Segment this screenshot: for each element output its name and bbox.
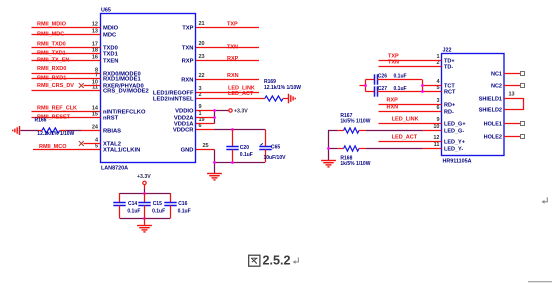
wire C65 bottom lead bbox=[265, 149, 267, 162]
power +3.3V symbol lower bbox=[143, 181, 146, 184]
svg-text:RMII_RXD1: RMII_RXD1 bbox=[37, 76, 66, 82]
power +3.3V symbol bbox=[229, 109, 232, 112]
svg-text:TXP: TXP bbox=[227, 21, 238, 27]
IC U65 LAN8720A body bbox=[101, 14, 196, 163]
svg-text:3: 3 bbox=[436, 98, 439, 104]
svg-text:RMII_TX_EN: RMII_TX_EN bbox=[37, 58, 69, 64]
svg-text:RBIAS: RBIAS bbox=[103, 129, 121, 135]
wire net RXN to J22 bbox=[379, 111, 442, 113]
svg-text:23: 23 bbox=[199, 54, 205, 60]
svg-text:TXN: TXN bbox=[388, 60, 399, 66]
wire VDD bus vertical bbox=[214, 111, 216, 124]
svg-text:22: 22 bbox=[199, 73, 205, 79]
wire net RMII_RXD1 to pin 7 bbox=[32, 78, 101, 80]
page edge line bottom right bbox=[528, 281, 552, 282]
svg-text:NC2: NC2 bbox=[491, 84, 502, 90]
capacitor C14 bbox=[113, 203, 125, 206]
open pad at NC1 bbox=[521, 72, 525, 76]
wire stem to rail bbox=[144, 189, 146, 194]
wire net RMII_RESET to pin 15 bbox=[32, 117, 101, 119]
svg-text:18: 18 bbox=[92, 47, 98, 53]
wire net RMII_TXD0 to pin 17 bbox=[32, 47, 101, 49]
wire R166 left lead bbox=[38, 130, 42, 132]
C65 polarity mark bbox=[260, 143, 262, 145]
svg-text:C27: C27 bbox=[378, 86, 387, 92]
wire decoupling bottom rail bbox=[215, 162, 266, 164]
svg-text:HR911105A: HR911105A bbox=[443, 159, 472, 165]
open pad at HOLE1 bbox=[521, 122, 525, 126]
wire pin 9 VDDIO stub bbox=[196, 110, 215, 112]
wire R167 right lead bbox=[359, 130, 366, 132]
svg-text:HOLE2: HOLE2 bbox=[484, 135, 502, 141]
wire net TXP to J22 bbox=[379, 60, 442, 62]
wire net RXP from U65 bbox=[196, 60, 259, 62]
svg-text:+3.3V: +3.3V bbox=[234, 109, 248, 115]
svg-text:C16: C16 bbox=[178, 201, 187, 207]
wire net RMII_REF_CLK to pin 14 bbox=[32, 111, 101, 113]
svg-text:LED_Y+: LED_Y+ bbox=[444, 140, 465, 146]
svg-text:13: 13 bbox=[509, 92, 515, 98]
wire pin 6 VDDCR stub bbox=[196, 129, 214, 131]
svg-text:RXP: RXP bbox=[182, 59, 194, 65]
svg-text:RMII_RXD0: RMII_RXD0 bbox=[37, 66, 66, 72]
wire C16 top lead bbox=[170, 193, 172, 202]
wire center-tap stub bbox=[360, 85, 366, 87]
svg-text:2.5.2: 2.5.2 bbox=[263, 254, 291, 268]
junction top rail bbox=[143, 192, 146, 195]
capacitor C26 bbox=[375, 74, 378, 84]
svg-text:0.1uF: 0.1uF bbox=[178, 209, 191, 215]
junction at VDDIO tee bbox=[213, 109, 216, 112]
caption return mark bbox=[293, 257, 299, 264]
wire cap cluster top rail bbox=[120, 193, 170, 195]
svg-text:HOLE1: HOLE1 bbox=[484, 122, 502, 128]
svg-text:+3.3V: +3.3V bbox=[137, 174, 151, 180]
svg-text:RXN: RXN bbox=[387, 105, 399, 111]
svg-text:TXD1: TXD1 bbox=[103, 52, 119, 58]
junction on center-tap bbox=[364, 84, 367, 87]
ground below R167/R168 bbox=[321, 161, 336, 167]
svg-text:15: 15 bbox=[92, 111, 98, 117]
wire pin 24 RBIAS stub bbox=[81, 130, 101, 132]
svg-text:RMII_MDIO: RMII_MDIO bbox=[37, 22, 67, 28]
ground below cap cluster bbox=[137, 226, 152, 232]
svg-text:SHIELD1: SHIELD1 bbox=[479, 97, 502, 103]
no-connect X on pin 10 bbox=[79, 83, 84, 88]
svg-text:VDDIO: VDDIO bbox=[175, 109, 194, 115]
svg-text:6: 6 bbox=[436, 105, 439, 111]
wire C15 top lead bbox=[144, 193, 146, 202]
wire net RMII_MDIO to pin 12 bbox=[32, 27, 101, 29]
junction at C20 bottom bbox=[231, 161, 234, 164]
svg-text:RCT: RCT bbox=[444, 90, 456, 96]
wire bus to +3.3V bbox=[215, 110, 229, 112]
wire to C26 bbox=[366, 79, 375, 81]
svg-text:RXN: RXN bbox=[227, 73, 239, 79]
svg-text:1k/5% 1/10W: 1k/5% 1/10W bbox=[340, 119, 370, 125]
wire net LED_LINK from pin 3 bbox=[196, 92, 259, 94]
wire to C27 bbox=[366, 91, 375, 93]
svg-text:LED_G-: LED_G- bbox=[444, 129, 464, 135]
capacitor C16 bbox=[164, 203, 176, 206]
svg-text:SHIELD2: SHIELD2 bbox=[479, 108, 502, 114]
wire NC2 to open pad bbox=[504, 85, 521, 87]
svg-text:16: 16 bbox=[92, 54, 98, 60]
junction GND rail bbox=[213, 161, 216, 164]
wire C20 bottom lead bbox=[232, 149, 234, 162]
svg-text:7: 7 bbox=[95, 72, 98, 78]
svg-text:TXEN: TXEN bbox=[103, 59, 118, 65]
wire R168 to pin stub bbox=[366, 148, 423, 150]
wire net RMII_TX_EN to pin 16 bbox=[32, 60, 101, 62]
wire NC1 to open pad bbox=[504, 73, 521, 75]
svg-text:GND: GND bbox=[181, 148, 194, 154]
svg-text:R166: R166 bbox=[35, 117, 47, 123]
resistor R166 body bbox=[42, 128, 60, 133]
svg-text:0.1uF: 0.1uF bbox=[152, 209, 165, 215]
svg-text:C20: C20 bbox=[240, 145, 249, 151]
ground at RBIAS bbox=[13, 126, 20, 135]
svg-text:LED_G+: LED_G+ bbox=[444, 122, 466, 128]
stray return mark right side bbox=[542, 197, 548, 204]
svg-text:RMII_REF_CLK: RMII_REF_CLK bbox=[37, 106, 77, 112]
wire caps left vertical bbox=[365, 80, 367, 92]
no-connect X on pin 4 bbox=[79, 141, 84, 146]
svg-text:RD+: RD+ bbox=[444, 103, 455, 109]
wire pin 4 XTAL2 stub bbox=[84, 143, 101, 145]
open pad at NC2 bbox=[521, 84, 525, 88]
svg-text:TXP: TXP bbox=[182, 26, 193, 32]
svg-text:NC1: NC1 bbox=[491, 72, 502, 78]
svg-text:C15: C15 bbox=[153, 201, 162, 207]
wire pin 10 stub bbox=[84, 85, 101, 87]
wire net RMII_RXD0 to pin 8 bbox=[32, 73, 101, 75]
svg-text:9: 9 bbox=[436, 117, 439, 123]
wire net TXP from U65 bbox=[196, 27, 259, 29]
svg-text:RXN: RXN bbox=[181, 78, 193, 84]
wire vertical to R168 bbox=[328, 148, 338, 150]
wire R168 right lead bbox=[359, 148, 366, 150]
svg-text:C14: C14 bbox=[128, 201, 137, 207]
wire C14 top lead bbox=[119, 193, 121, 202]
svg-text:LED_LINK: LED_LINK bbox=[392, 117, 419, 123]
wire C14 bottom lead bbox=[119, 205, 121, 218]
svg-text:1k/5% 1/10W: 1k/5% 1/10W bbox=[340, 161, 370, 167]
svg-text:TXN: TXN bbox=[182, 46, 194, 52]
svg-text:J22: J22 bbox=[443, 48, 452, 54]
wire R169 to ground bbox=[283, 98, 288, 100]
wire pin 19 VDD1A stub bbox=[196, 123, 215, 125]
svg-text:VDDCR: VDDCR bbox=[173, 128, 194, 134]
svg-text:RD-: RD- bbox=[444, 110, 454, 116]
wire net TXN from U65 bbox=[196, 47, 259, 49]
wire rail to ground bbox=[144, 219, 146, 226]
wire R167/R168 common vertical bbox=[328, 131, 330, 161]
junction at C20 top bbox=[231, 128, 234, 131]
wire net LED_ACT to pin 12 bbox=[379, 141, 442, 143]
wire TCT/RCT tie vertical bbox=[422, 80, 424, 92]
open pad at HOLE2 bbox=[521, 135, 525, 139]
svg-text:12.1k/1% 1/10W: 12.1k/1% 1/10W bbox=[37, 131, 74, 137]
connector J22 HR911105A body bbox=[442, 54, 505, 156]
wire C15 bottom lead bbox=[144, 205, 146, 218]
wire net RXN from U65 bbox=[196, 79, 259, 81]
ground at R169 bbox=[289, 94, 296, 104]
capacitor C15 bbox=[138, 203, 150, 206]
svg-text:21: 21 bbox=[199, 21, 205, 27]
svg-text:C65: C65 bbox=[271, 144, 280, 150]
caption character TU (figure) bbox=[249, 255, 260, 266]
svg-text:12: 12 bbox=[433, 135, 439, 141]
wire HOLE2 to open pad bbox=[504, 136, 521, 138]
svg-text:0.1uF: 0.1uF bbox=[394, 86, 407, 92]
wire net TXN to J22 bbox=[379, 66, 442, 68]
capacitor C20 bbox=[226, 147, 238, 150]
svg-text:U65: U65 bbox=[101, 8, 111, 14]
wire net RMII_TXD1 to pin 18 bbox=[32, 53, 101, 55]
svg-text:20: 20 bbox=[199, 41, 205, 47]
svg-text:LED2/nINTSEL: LED2/nINTSEL bbox=[153, 97, 194, 103]
junction bottom rail bbox=[143, 217, 146, 220]
svg-text:RXP: RXP bbox=[227, 56, 239, 62]
svg-text:25: 25 bbox=[203, 143, 209, 149]
wire net RMII_MDC to pin 13 bbox=[32, 34, 101, 36]
wire pin 11 stub bbox=[423, 148, 442, 150]
svg-text:RMII_MDC: RMII_MDC bbox=[37, 32, 64, 38]
svg-text:RMII_MCO: RMII_MCO bbox=[39, 144, 67, 150]
svg-text:C26: C26 bbox=[378, 74, 387, 80]
wire +3.3V stem bbox=[144, 185, 146, 189]
wire C20 top lead bbox=[232, 130, 234, 147]
wire ground to R166 bbox=[20, 130, 38, 132]
wire cap cluster bottom rail bbox=[120, 218, 170, 220]
wire pin 25 GND stub bbox=[196, 149, 215, 151]
svg-text:MDC: MDC bbox=[103, 33, 117, 39]
wire R166 right lead bbox=[60, 130, 66, 132]
wire net RMII_CRS_DV to pin 11 bbox=[32, 90, 101, 92]
capacitor C27 bbox=[375, 86, 378, 96]
svg-text:10uF/10V: 10uF/10V bbox=[264, 155, 287, 161]
svg-text:10: 10 bbox=[433, 124, 439, 130]
svg-text:RMII_TXD0: RMII_TXD0 bbox=[37, 42, 66, 48]
ground at U65 GND bbox=[207, 174, 222, 180]
svg-text:RXP: RXP bbox=[387, 98, 399, 104]
svg-text:LAN8720A: LAN8720A bbox=[101, 166, 128, 172]
wire pin 10 stub bbox=[423, 130, 442, 132]
junction at VDD2A tee bbox=[213, 116, 216, 119]
svg-text:11: 11 bbox=[434, 142, 440, 148]
wire net RXP to J22 bbox=[379, 104, 442, 106]
svg-text:LED_ACT: LED_ACT bbox=[228, 91, 254, 97]
wire net RMII_MCO to pin 5 bbox=[33, 149, 101, 151]
svg-text:5: 5 bbox=[95, 143, 98, 149]
wire to pin 4 TCT bbox=[422, 85, 442, 87]
svg-text:0.1uF: 0.1uF bbox=[127, 209, 140, 215]
svg-text:13: 13 bbox=[92, 28, 98, 34]
wire vertical to R167 bbox=[328, 130, 338, 132]
junction at RCT bbox=[421, 90, 424, 93]
svg-text:9: 9 bbox=[199, 104, 202, 110]
wire R167 to pin stub bbox=[366, 130, 423, 132]
svg-text:12: 12 bbox=[92, 21, 98, 27]
wire R168 left lead bbox=[338, 148, 344, 150]
resistor R169 body bbox=[265, 96, 283, 101]
junction at TCT bbox=[421, 84, 424, 87]
svg-text:LED_Y-: LED_Y- bbox=[444, 147, 463, 153]
svg-text:0.1uF: 0.1uF bbox=[394, 74, 407, 80]
wire pin 1 VDD2A stub bbox=[196, 117, 215, 119]
wire C65 top lead bbox=[265, 130, 267, 147]
wire R166 to pin stub bbox=[66, 130, 81, 132]
capacitor C65 bbox=[259, 147, 271, 150]
wire VDDCR rail bbox=[214, 129, 265, 131]
wire C16 bottom lead bbox=[170, 205, 172, 218]
svg-text:24: 24 bbox=[92, 124, 99, 130]
svg-text:RMII_TXD1: RMII_TXD1 bbox=[37, 51, 66, 57]
wire GND down bbox=[214, 150, 216, 174]
svg-text:MDIO: MDIO bbox=[103, 26, 119, 32]
svg-text:nRST: nRST bbox=[103, 116, 119, 122]
svg-text:TXN: TXN bbox=[227, 45, 238, 51]
wire R167 left lead bbox=[338, 130, 344, 132]
svg-text:12.1k/1% 1/10W: 12.1k/1% 1/10W bbox=[264, 85, 301, 91]
wire C26 to TCT branch bbox=[377, 79, 422, 81]
svg-text:RMII_CRS_DV: RMII_CRS_DV bbox=[37, 83, 74, 89]
svg-text:0.1uF: 0.1uF bbox=[240, 152, 253, 158]
svg-text:LED_ACT: LED_ACT bbox=[392, 135, 418, 141]
resistor R168 body bbox=[344, 146, 359, 151]
wire C27 to pin 5 RCT bbox=[377, 91, 441, 93]
svg-text:TD-: TD- bbox=[444, 65, 453, 71]
resistor R167 body bbox=[344, 128, 359, 133]
svg-text:RXD1/MODE1: RXD1/MODE1 bbox=[103, 77, 141, 83]
wire SHIELD1-SHIELD2 loop bbox=[504, 99, 524, 110]
svg-text:XTAL1/CLKIN: XTAL1/CLKIN bbox=[103, 148, 140, 154]
svg-text:CRS_DV/MODE2: CRS_DV/MODE2 bbox=[103, 89, 149, 95]
wire net LED_ACT from pin 2 bbox=[196, 98, 265, 100]
wire HOLE1 to open pad bbox=[504, 123, 521, 125]
junction at R168 bbox=[327, 147, 330, 150]
wire net LED_LINK to pin 9 bbox=[379, 123, 442, 125]
